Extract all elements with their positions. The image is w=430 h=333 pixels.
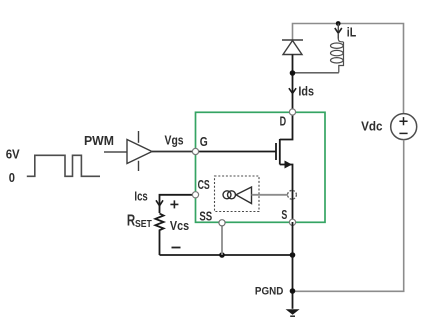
wire PWM input: [104, 151, 127, 153]
svg-text:PWM: PWM: [84, 133, 114, 148]
svg-text:Vcs: Vcs: [170, 218, 189, 233]
current mirror circles: [223, 191, 231, 199]
plus sign Vcs: [170, 200, 178, 208]
current sense block dashed box: [215, 176, 260, 212]
minus sign Vcs: [172, 247, 181, 249]
svg-text:Vdc: Vdc: [361, 120, 382, 134]
pin G: [192, 148, 198, 154]
svg-text:Ids: Ids: [298, 85, 314, 99]
arrow Ids: [289, 88, 296, 93]
resistor RSET: [155, 214, 163, 256]
node PGND: [290, 288, 296, 294]
svg-text:CS: CS: [198, 177, 210, 192]
svg-text:D: D: [280, 114, 287, 129]
pin CS: [192, 192, 198, 198]
gate driver buffer: [127, 131, 152, 171]
node source junction: [290, 252, 296, 258]
pin D: [289, 109, 295, 115]
wire inductor bottom to diode node: [293, 72, 339, 74]
arrow iL: [337, 24, 339, 39]
node top junction: [336, 21, 341, 26]
sense amplifier triangle: [236, 187, 252, 204]
wire diode to drain: [292, 55, 294, 113]
wire bottom return: [160, 254, 293, 256]
sense node dashed circle: [288, 190, 297, 199]
svg-text:SS: SS: [199, 208, 212, 223]
svg-text:6V: 6V: [6, 148, 21, 162]
svg-text:S: S: [281, 207, 287, 222]
arrow Ics: [156, 200, 163, 206]
transistor Q1 power MOSFET: [196, 112, 293, 222]
pin SS: [219, 220, 225, 226]
wire SS down: [221, 222, 223, 255]
sense-FET package outline (green box): [196, 112, 326, 222]
node diode/inductor junction: [290, 70, 296, 76]
ground symbol: [286, 309, 300, 315]
wire sense to source: [252, 194, 289, 196]
wire top rail: [293, 24, 404, 114]
wire Vgs (driver output to G): [152, 151, 195, 153]
svg-text:Ics: Ics: [134, 189, 147, 203]
svg-text:PGND: PGND: [255, 285, 283, 297]
inductor L1 coil: [331, 33, 344, 73]
wire source to ground: [292, 222, 294, 309]
wire CS to Rset: [160, 195, 196, 213]
wire Vdc bottom to PGND: [293, 140, 404, 291]
node SS junction: [219, 252, 225, 258]
svg-text:Vgs: Vgs: [165, 134, 184, 148]
voltage source Vdc: [391, 114, 417, 140]
svg-text:iL: iL: [347, 26, 357, 40]
diode D1 (freewheeling): [282, 40, 303, 55]
arrow MOSFET source: [285, 161, 293, 169]
svg-text:SET: SET: [135, 218, 152, 230]
svg-text:0: 0: [9, 171, 15, 185]
pin S: [289, 219, 295, 225]
svg-text:G: G: [200, 134, 208, 149]
PWM square wave: [27, 155, 100, 176]
